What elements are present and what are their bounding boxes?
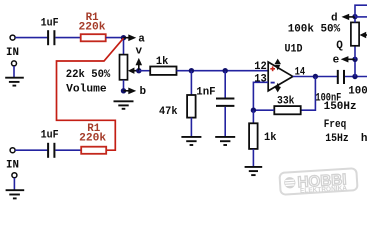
ground (below 1k) [245, 167, 263, 175]
potentiometer 22k Volume [120, 55, 128, 80]
wire [177, 70, 269, 72]
wire [354, 59, 356, 76]
node b arrow [124, 88, 137, 95]
node d junction [352, 14, 357, 19]
op-amp power arrows (top) [275, 59, 282, 71]
svg-text:12: 12 [254, 61, 267, 73]
node e arrow [341, 56, 355, 62]
output junction [313, 74, 318, 79]
op-amp + mark [270, 66, 275, 71]
svg-text:v: v [136, 46, 143, 58]
wire [253, 109, 274, 111]
capacitor 1nF [216, 99, 234, 106]
wire [13, 178, 15, 190]
wire [15, 149, 47, 151]
svg-text:Freq: Freq [324, 119, 347, 131]
ground (below volume pot) [114, 101, 134, 109]
op-amp power arrows (bottom) [275, 83, 282, 93]
resistor R1 220k (top, red) [81, 34, 106, 41]
watermark HOBBI ELEKTRONIKA [279, 168, 357, 196]
junction (47k) [189, 68, 194, 73]
svg-text:33k: 33k [277, 96, 295, 108]
svg-text:Volume: Volume [66, 84, 107, 96]
wire [55, 149, 81, 151]
wire [354, 46, 356, 60]
svg-text:U1D: U1D [285, 43, 303, 55]
svg-text:1k: 1k [264, 132, 277, 144]
node d arrow [342, 14, 356, 20]
svg-text:220k: 220k [79, 133, 106, 145]
svg-text:13: 13 [254, 73, 267, 85]
node a arrow [124, 34, 137, 41]
svg-text:1uF: 1uF [41, 18, 59, 30]
resistor 33k [274, 106, 300, 114]
wire [252, 149, 254, 166]
ground (below 47k) [181, 137, 201, 145]
wire output [293, 76, 337, 78]
svg-text:e: e [333, 54, 340, 66]
wire [106, 37, 124, 39]
wire [252, 110, 254, 123]
resistor R1 220k (bottom, red) [81, 147, 106, 154]
wire [139, 70, 150, 72]
svg-text:22k 50%: 22k 50% [66, 69, 111, 81]
op-amp U1D [268, 62, 293, 91]
svg-text:a: a [138, 34, 145, 46]
wire [345, 76, 367, 78]
wire pin13 [253, 82, 268, 110]
svg-text:IN: IN [6, 47, 19, 59]
capacitor 1uF (bottom) [48, 143, 54, 158]
capacitor 1uF (top) [48, 30, 54, 45]
junction (1nF) [223, 68, 228, 73]
svg-text:100k: 100k [348, 85, 367, 97]
wire [13, 66, 15, 77]
resistor 47k [187, 95, 196, 118]
ground (below 1nF) [215, 137, 235, 145]
ground (bottom input) [6, 190, 25, 198]
svg-text:15Hz: 15Hz [325, 133, 349, 145]
wire [55, 37, 80, 39]
wire [123, 40, 125, 55]
svg-text:150Hz: 150Hz [324, 101, 357, 113]
potentiometer 100k (Freq) [351, 22, 359, 45]
junction (after 100nF) [352, 74, 357, 79]
resistor 1k (to ground) [249, 123, 258, 149]
wire [190, 118, 192, 136]
resistor 1k (series) [150, 67, 176, 75]
wire [224, 107, 226, 136]
svg-text:1nF: 1nF [196, 86, 215, 98]
ground terminal circle (top input) [12, 61, 17, 66]
ground (top input) [5, 78, 24, 86]
svg-text:IN: IN [6, 159, 19, 171]
op-amp - mark [271, 82, 275, 84]
input terminal IN (top) [10, 35, 15, 40]
wire [354, 17, 356, 23]
wire (node d to right edge) [355, 16, 367, 18]
potentiometer wiper arrow [128, 68, 139, 74]
potentiometer 100k wiper arrow [360, 32, 367, 38]
wire (pot top to edge) [355, 5, 367, 16]
svg-text:b: b [140, 86, 147, 98]
node a junction [121, 35, 126, 40]
capacitor 100nF (series) [338, 70, 344, 84]
wire feedback [301, 77, 316, 111]
svg-text:220k: 220k [79, 21, 106, 33]
ground terminal circle (bottom input) [12, 173, 17, 178]
svg-text:d: d [331, 12, 338, 24]
node b junction [121, 88, 126, 93]
wire [123, 80, 125, 91]
wire [15, 37, 47, 39]
svg-text:100k 50%: 100k 50% [288, 24, 341, 36]
svg-text:1uF: 1uF [41, 130, 59, 142]
svg-text:1k: 1k [156, 56, 169, 68]
wire [224, 71, 226, 98]
feedback node junction [251, 108, 256, 113]
node e junction [352, 57, 357, 62]
wire (red) node a to lower R1 [57, 38, 124, 150]
node v junction on wiper [136, 68, 141, 73]
wire [190, 71, 192, 95]
node v arrow (up) [136, 58, 143, 71]
svg-text:47k: 47k [159, 106, 178, 118]
svg-text:hi: hi [361, 133, 367, 145]
input terminal IN (bottom) [10, 148, 15, 153]
svg-text:Q: Q [336, 40, 343, 52]
